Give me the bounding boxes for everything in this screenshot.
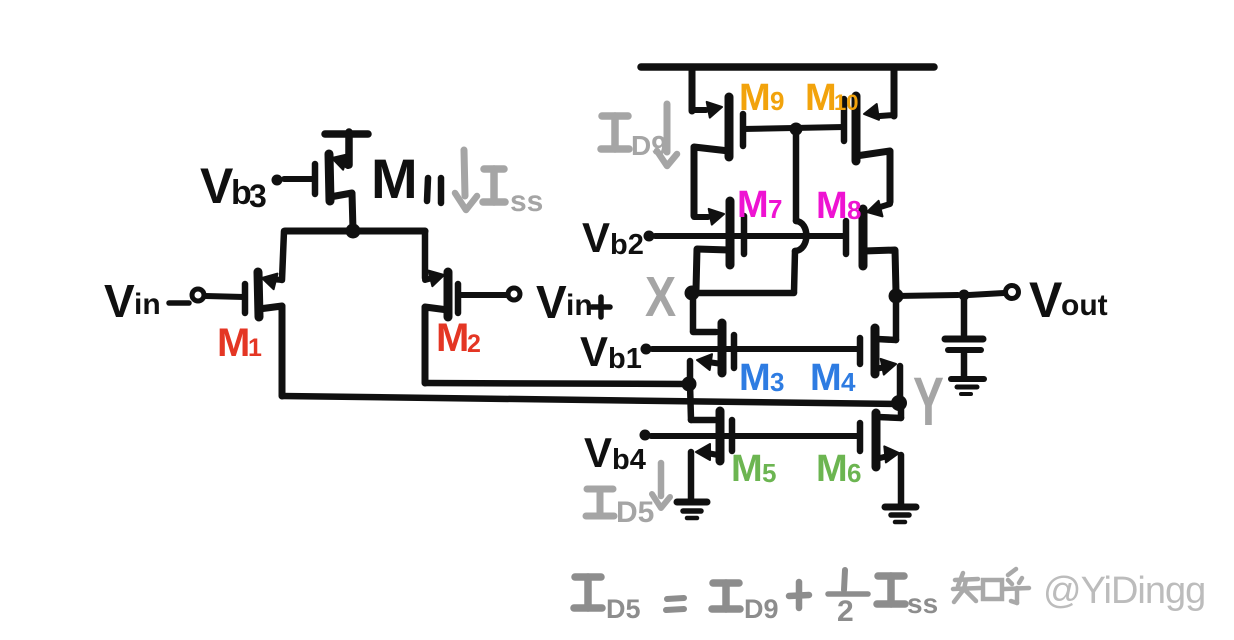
- svg-text:b1: b1: [608, 343, 642, 375]
- svg-text:out: out: [1061, 289, 1108, 322]
- wire M1 source: [282, 231, 284, 280]
- svg-text:6: 6: [847, 458, 861, 488]
- bias terminal Vb3: [272, 175, 316, 186]
- formula one half: [828, 570, 868, 628]
- transistor M8: [846, 201, 896, 292]
- svg-text:10: 10: [834, 90, 858, 115]
- svg-text:V: V: [584, 429, 612, 476]
- svg-text:M: M: [217, 321, 250, 365]
- svg-text:@YiDingg: @YiDingg: [1043, 570, 1205, 612]
- svg-text:M: M: [810, 357, 842, 399]
- bias terminal Vb1: [641, 344, 861, 355]
- formula equals: [666, 598, 684, 610]
- formula I_D9: [712, 583, 779, 624]
- svg-text:9: 9: [770, 86, 784, 116]
- svg-text:Y: Y: [913, 364, 944, 440]
- svg-text:V: V: [582, 214, 610, 261]
- label Iss: [483, 169, 543, 218]
- transistor M4: [860, 328, 900, 399]
- svg-text:8: 8: [847, 195, 861, 225]
- wire node X: [692, 290, 794, 297]
- svg-text:in: in: [566, 289, 593, 322]
- svg-text:V: V: [580, 328, 608, 375]
- label Vb4: [584, 429, 646, 476]
- svg-text:2: 2: [837, 595, 854, 628]
- transistor M10: [844, 96, 894, 202]
- svg-text:7: 7: [768, 194, 782, 224]
- svg-text:in: in: [134, 288, 161, 321]
- capacitor tap node: [959, 290, 970, 301]
- svg-text:M: M: [739, 357, 771, 399]
- label X: [645, 266, 676, 329]
- node A: [682, 377, 697, 392]
- label M11: [371, 147, 441, 210]
- current arrow ID9: [657, 104, 677, 166]
- svg-text:M: M: [371, 147, 418, 210]
- gate node: [790, 123, 803, 136]
- label M4: [810, 357, 856, 399]
- current arrow ID5: [652, 463, 670, 508]
- svg-text:3: 3: [770, 367, 784, 397]
- power rail: [641, 63, 934, 71]
- svg-text:D9: D9: [631, 130, 667, 161]
- svg-text:M: M: [436, 316, 469, 360]
- wire node A to M5: [690, 384, 691, 420]
- wire node Y to M6: [878, 404, 901, 418]
- wire M10 source: [891, 67, 898, 116]
- ground capacitor: [951, 379, 984, 394]
- label Vin+: [536, 276, 610, 328]
- label ID9: [601, 116, 667, 161]
- output terminal Vout: [1006, 286, 1019, 299]
- svg-text:ss: ss: [907, 588, 938, 619]
- wire M9 source: [689, 67, 696, 111]
- svg-text:V: V: [104, 275, 135, 327]
- svg-text:M: M: [816, 185, 848, 227]
- tail rail wire: [285, 228, 425, 235]
- ground M6: [885, 507, 916, 522]
- svg-text:5: 5: [762, 458, 776, 488]
- svg-text:X: X: [645, 266, 676, 329]
- svg-text:M: M: [739, 77, 771, 119]
- svg-text:M: M: [731, 448, 763, 490]
- transistor M11: [315, 154, 353, 230]
- svg-text:M: M: [737, 184, 769, 226]
- transistor M7: [694, 201, 744, 290]
- svg-text:D5: D5: [616, 496, 654, 529]
- wire Vout node: [889, 289, 959, 304]
- label M5: [731, 448, 776, 490]
- node Y: [891, 395, 907, 411]
- svg-text:V: V: [200, 158, 234, 214]
- wire X to M3 drain: [693, 293, 716, 332]
- wire M2 drain to node A: [425, 383, 686, 384]
- label M1: [217, 321, 262, 365]
- supply tap for M11: [325, 132, 368, 165]
- transistor M5: [691, 411, 732, 499]
- node X: [685, 286, 700, 301]
- transistor M1: [245, 272, 282, 396]
- transistor M3: [690, 323, 734, 381]
- label M3: [739, 357, 784, 399]
- transistor M9: [692, 97, 743, 216]
- label M6: [816, 448, 861, 490]
- watermark zhihu: [953, 569, 1029, 603]
- current arrow Iss: [455, 150, 477, 210]
- svg-text:4: 4: [841, 367, 856, 397]
- input terminal Vin+: [458, 288, 520, 300]
- label M10: [805, 77, 858, 119]
- svg-text:b2: b2: [610, 229, 644, 261]
- wire M2 source: [422, 231, 429, 278]
- label M8: [816, 185, 861, 227]
- svg-text:3: 3: [249, 178, 267, 214]
- svg-text:V: V: [536, 276, 567, 328]
- label Vb1: [580, 328, 642, 375]
- wire M9 M10 gates: [743, 127, 844, 129]
- svg-text:M: M: [805, 77, 837, 119]
- svg-text:V: V: [1029, 272, 1063, 328]
- svg-text:M: M: [816, 448, 848, 490]
- input terminal Vin-: [192, 289, 244, 301]
- label Vb3: [200, 158, 267, 214]
- label Vout: [1029, 272, 1108, 328]
- label Vb2: [582, 214, 644, 261]
- transistor M2: [425, 271, 458, 383]
- ground M5: [677, 502, 707, 518]
- bias terminal Vb4: [640, 430, 861, 441]
- formula I_D5: [574, 577, 641, 624]
- svg-text:b4: b4: [612, 444, 646, 476]
- formula plus: [789, 582, 809, 608]
- transistor M6: [860, 413, 901, 504]
- label Vin-: [104, 275, 189, 327]
- svg-text:D5: D5: [606, 594, 641, 624]
- label M2: [436, 316, 481, 360]
- svg-text:2: 2: [467, 330, 481, 358]
- label M9: [739, 77, 784, 119]
- wire M1 drain to node Y: [282, 396, 899, 404]
- label ID5: [586, 489, 654, 529]
- watermark author: [1041, 568, 1205, 612]
- tail node: [346, 224, 361, 239]
- svg-text:D9: D9: [744, 594, 779, 624]
- bias terminal Vb2: [644, 231, 847, 242]
- wire Vout node to M4 drain: [877, 296, 896, 340]
- svg-text:1: 1: [248, 334, 262, 362]
- wire gate node to X with hop: [794, 129, 806, 292]
- label Y: [913, 364, 944, 440]
- label M7: [737, 184, 782, 226]
- capacitor CL: [945, 298, 983, 376]
- formula I_ss: [877, 576, 938, 619]
- wire to Vout terminal: [969, 293, 1004, 295]
- svg-text:ss: ss: [510, 185, 543, 218]
